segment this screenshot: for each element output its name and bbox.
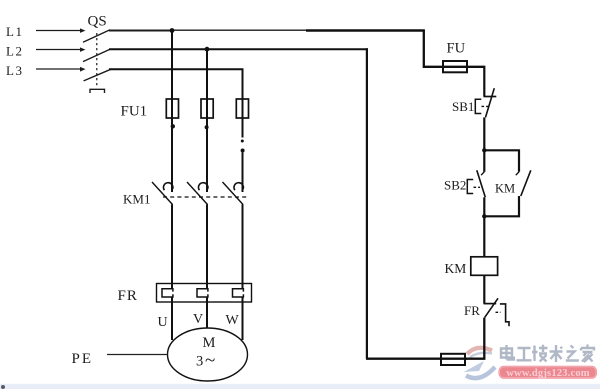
svg-text:SB2: SB2 <box>444 178 466 193</box>
motor M circle <box>168 328 248 381</box>
svg-text:FU: FU <box>447 41 466 57</box>
char zhi <box>566 346 579 361</box>
junction blob phase1 <box>171 124 175 128</box>
wire phase2 below fuse <box>206 118 208 192</box>
contactor KM1 contact 2 blade <box>187 182 208 205</box>
wire L1 incoming <box>36 30 80 32</box>
contactor KM1 contact 1 blade <box>152 182 173 205</box>
svg-text:3: 3 <box>196 354 203 370</box>
wire bus L1 <box>109 30 174 32</box>
bottom page bar <box>0 384 600 389</box>
contactor KM1 contact 3 blade <box>223 182 244 205</box>
wire bottom return <box>366 358 467 360</box>
relay FR heater 3 <box>233 289 244 297</box>
watermark logo grey underside <box>470 353 492 357</box>
watermark logo pink arc <box>467 348 492 354</box>
contact KM aux blade <box>521 170 531 196</box>
wire phase3 below fuse <box>242 118 244 138</box>
svg-text:M: M <box>203 335 216 351</box>
bottom-left speck <box>1 385 5 389</box>
svg-text:PE: PE <box>72 351 94 367</box>
switch QS blade 2 <box>83 49 110 61</box>
wire L2 incoming <box>36 49 80 51</box>
svg-text:W: W <box>226 313 240 328</box>
contactor KM1 contact 3 arc <box>234 183 243 190</box>
watermark logo blue arc <box>466 367 495 378</box>
contact KM aux terminal tick <box>516 172 519 175</box>
button SB1 blade <box>486 88 495 117</box>
char shu <box>550 345 563 362</box>
wire bus L3 <box>109 68 244 70</box>
svg-text:KM: KM <box>445 261 467 276</box>
contactor KM1 contact 1 arc <box>163 183 172 190</box>
wire SB2 to coil <box>483 197 485 256</box>
svg-text:L1: L1 <box>6 24 23 39</box>
wire phase1 vertical upper <box>171 31 173 121</box>
button SB2 blade <box>477 170 486 197</box>
fuse FU1-b <box>201 99 213 118</box>
contact FR link dash <box>496 311 501 313</box>
wire phase2 to motor <box>206 297 208 329</box>
button SB1 link dashed <box>482 105 489 107</box>
wire phase2 vertical upper <box>206 49 208 120</box>
wire junction to SB2 <box>483 150 485 172</box>
wire FR to bottom <box>465 318 484 359</box>
wire return vertical <box>366 48 368 359</box>
char dian <box>501 345 514 360</box>
watermark banner <box>499 366 598 379</box>
junction dot bottom <box>482 214 486 218</box>
watermark logo blue wedge <box>464 361 485 372</box>
switch QS linkage dashed <box>96 33 98 88</box>
contact FR blade <box>485 298 498 317</box>
watermark text strokes (grey) <box>501 345 594 363</box>
junction dot L1/FU1 <box>170 28 175 33</box>
svg-text:QS: QS <box>88 14 107 30</box>
relay FR heater 2 <box>197 289 208 297</box>
svg-text:KM1: KM1 <box>123 192 150 207</box>
button SB1 crossbar <box>484 96 497 98</box>
wire L3 incoming <box>36 68 80 70</box>
switch QS handle <box>90 89 105 93</box>
svg-text:www.dgjs123.com: www.dgjs123.com <box>506 368 590 379</box>
svg-text:FU1: FU1 <box>121 104 148 120</box>
button SB2 link dashed <box>474 186 481 188</box>
svg-text:L2: L2 <box>6 44 23 59</box>
junction dot top <box>482 148 486 152</box>
wire phase2 mid <box>206 205 208 290</box>
wire phase3 mid <box>242 205 244 290</box>
wire phase3 vertical upper <box>242 69 244 120</box>
junction blob phase2 <box>205 125 209 129</box>
relay FR box <box>157 284 252 303</box>
svg-text:U: U <box>158 315 168 330</box>
wire phase1 below fuse <box>171 118 173 192</box>
wire control feed corner <box>424 31 485 67</box>
relay FR heater 1 <box>162 289 173 297</box>
svg-text:V: V <box>193 312 203 327</box>
wire branch bottom <box>484 196 519 216</box>
char jia <box>581 345 594 363</box>
button SB2 terminal tick <box>481 172 484 175</box>
junction dot L2 <box>205 47 210 52</box>
wire bus L2 <box>109 48 368 50</box>
button SB1 actuator <box>475 99 481 113</box>
wire SB1 to junction <box>483 117 485 151</box>
wire branch top <box>484 150 519 172</box>
wire FU to SB1 <box>483 66 485 97</box>
wire phase1 mid <box>171 205 173 290</box>
contactor KM1 contact 2 arc <box>198 183 207 190</box>
wire phase3 to motor <box>242 297 244 340</box>
wire phase1 to motor <box>171 297 173 340</box>
fuse FU1-c <box>236 99 248 118</box>
switch QS blade 3 <box>84 69 111 81</box>
svg-text:FR: FR <box>464 303 480 318</box>
fuse FU2 bottom <box>441 354 465 365</box>
char ji <box>532 345 548 362</box>
wire coil to FR <box>483 275 485 303</box>
switch QS blade 1 <box>83 30 110 43</box>
svg-text:~: ~ <box>205 350 215 371</box>
button SB2 actuator <box>467 180 473 194</box>
contactor KM1 linkage dashed <box>163 196 248 198</box>
char gong <box>517 348 532 360</box>
fuse FU <box>443 61 467 72</box>
contact FR thermal hook <box>500 304 509 326</box>
coil KM box <box>471 257 498 276</box>
svg-text:L3: L3 <box>6 63 23 78</box>
svg-text:FR: FR <box>118 288 138 304</box>
svg-text:SB1: SB1 <box>452 99 474 114</box>
contact FR crossbar <box>484 303 497 305</box>
wire PE <box>107 354 168 356</box>
svg-text:KM: KM <box>495 182 515 196</box>
fuse FU1-a <box>166 99 178 118</box>
